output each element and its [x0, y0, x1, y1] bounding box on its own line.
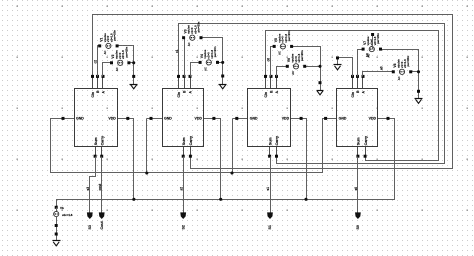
full-adder U1 [75, 75, 118, 158]
full-adder U2 [163, 75, 204, 158]
voltage source Vb (vdc=1.8) [54, 206, 73, 241]
svg-text:vdc=1.8: vdc=1.8 [62, 213, 73, 217]
svg-text:Sum: Sum [182, 137, 186, 145]
full-adder U3 [248, 75, 291, 158]
wire V source leads cell 2 [184, 38, 223, 77]
wire V source leads cell 4 [358, 50, 419, 92]
svg-text:AC: AC [103, 51, 107, 55]
full-adder U4 [337, 75, 378, 158]
voltage source V2 (input A3) [110, 47, 130, 72]
svg-text:Sum: Sum [268, 137, 272, 145]
svg-text:GND: GND [76, 117, 84, 121]
junction gnd rail at U2 drop [145, 171, 148, 174]
pin GND of U1 [62, 117, 65, 120]
svg-text:a0: a0 [380, 66, 384, 70]
svg-text:S0: S0 [356, 225, 360, 229]
junction vdd rail at U1 drop [132, 198, 135, 201]
svg-text:S2: S2 [181, 225, 185, 229]
svg-text:Sum: Sum [94, 137, 98, 145]
svg-text:per=20n: per=20n [406, 56, 410, 67]
svg-text:s3: s3 [86, 187, 90, 191]
svg-text:per=20n: per=20n [300, 50, 304, 61]
junction vdd rail at U2 drop [219, 198, 222, 201]
voltage source V7 (input B0) [362, 33, 382, 58]
wire net c0 feedback (U4 carry to U3 Cin) [266, 31, 439, 161]
svg-text:Vb: Vb [60, 206, 64, 210]
ground (Cin of U4 tied low) [334, 56, 353, 76]
wire output s2 [183, 157, 185, 213]
node vdd flag on V7 [371, 33, 374, 50]
svg-text:VDD: VDD [369, 117, 377, 121]
junction vdd rail at U3 drop [304, 198, 307, 201]
svg-text:S1: S1 [268, 225, 272, 229]
wire output cout [101, 157, 103, 213]
svg-text:AC: AC [115, 67, 119, 71]
voltage source V8 (input A0) [392, 56, 412, 81]
output pin S2 [180, 212, 186, 229]
svg-text:Cin: Cin [264, 92, 268, 97]
junction source ground node cell 2 [221, 61, 224, 64]
svg-text:AC: AC [291, 71, 295, 75]
svg-text:VDD: VDD [108, 117, 116, 121]
ground (source return) cell 2 [219, 75, 227, 89]
svg-text:per=20n: per=20n [213, 46, 217, 57]
pin VDD of U3 [300, 117, 303, 120]
pin GND of U3 [235, 117, 238, 120]
wire output s0 [357, 157, 359, 213]
pin VDD of U2 [212, 117, 215, 120]
ground (source return) cell 4 [415, 90, 423, 104]
svg-text:c2: c2 [93, 60, 97, 64]
svg-text:per=20n: per=20n [287, 30, 291, 41]
wire net c2 feedback (U2 carry to U1 Cin) [93, 15, 453, 169]
junction source ground node cell 3 [318, 65, 321, 68]
junction source ground node cell 4 [417, 70, 420, 73]
svg-text:GND: GND [339, 117, 347, 121]
svg-text:Cin: Cin [351, 92, 355, 97]
voltage source V1 (input B3) [98, 30, 118, 55]
pin GND of U4 [324, 117, 327, 120]
svg-text:s2: s2 [179, 187, 183, 191]
wire gnd rail [51, 119, 337, 173]
svg-text:Cout: Cout [100, 221, 104, 230]
voltage source V3 (input B2) [182, 21, 202, 46]
output pin S0 [355, 212, 361, 229]
pin GND of U2 [150, 117, 153, 120]
voltage source V4 (input A2) [199, 46, 219, 71]
svg-text:VDD: VDD [195, 117, 203, 121]
svg-text:b0: b0 [365, 53, 369, 57]
svg-text:c1: c1 [175, 49, 179, 53]
svg-text:GND: GND [250, 117, 258, 121]
wire vdd rail (Vb net) [57, 119, 395, 208]
svg-text:Cin: Cin [91, 92, 95, 97]
svg-text:per=20n: per=20n [376, 33, 380, 44]
wire output s1 [270, 157, 272, 213]
junction gnd rail at U3 drop [230, 171, 233, 174]
svg-text:cout: cout [98, 183, 102, 191]
svg-text:Carry: Carry [189, 136, 193, 145]
svg-text:AC: AC [187, 42, 191, 46]
svg-text:Carry: Carry [100, 136, 104, 145]
wire output s3 [90, 157, 96, 213]
wire V source leads cell 3 [271, 47, 321, 83]
wire V source leads cell 1 [98, 46, 134, 77]
ground (source return) cell 3 [317, 81, 324, 95]
output pin S1 [267, 212, 273, 229]
output pin S3 [87, 212, 93, 229]
svg-text:Carry: Carry [275, 136, 279, 145]
junction source ground node cell 1 [132, 61, 135, 64]
svg-text:per=20n: per=20n [197, 21, 201, 32]
voltage source V5 (input B1) [273, 30, 293, 55]
pin VDD of U4 [387, 117, 390, 120]
svg-text:AC: AC [204, 67, 208, 71]
pin VDD of U1 [126, 117, 129, 120]
output pin Cout [99, 212, 105, 229]
wire net c1 feedback (U3 carry to U2 Cin) [179, 24, 445, 164]
svg-text:GND: GND [164, 117, 172, 121]
svg-text:per=20n: per=20n [124, 47, 128, 58]
ground (source return) cell 1 [130, 75, 138, 89]
ground (Vb return) [53, 241, 61, 246]
svg-text:AC: AC [397, 76, 401, 80]
svg-text:Cin: Cin [177, 92, 181, 97]
svg-text:Sum: Sum [357, 137, 361, 145]
svg-text:S3: S3 [88, 225, 92, 229]
svg-text:s1: s1 [266, 187, 270, 191]
voltage source V6 (input A1) [286, 50, 306, 75]
svg-text:c0: c0 [266, 58, 270, 62]
svg-text:Carry: Carry [364, 136, 368, 145]
svg-text:VDD: VDD [282, 117, 290, 121]
svg-text:s0: s0 [354, 187, 358, 191]
svg-text:AC: AC [278, 51, 282, 55]
svg-text:per=20n: per=20n [113, 30, 117, 41]
